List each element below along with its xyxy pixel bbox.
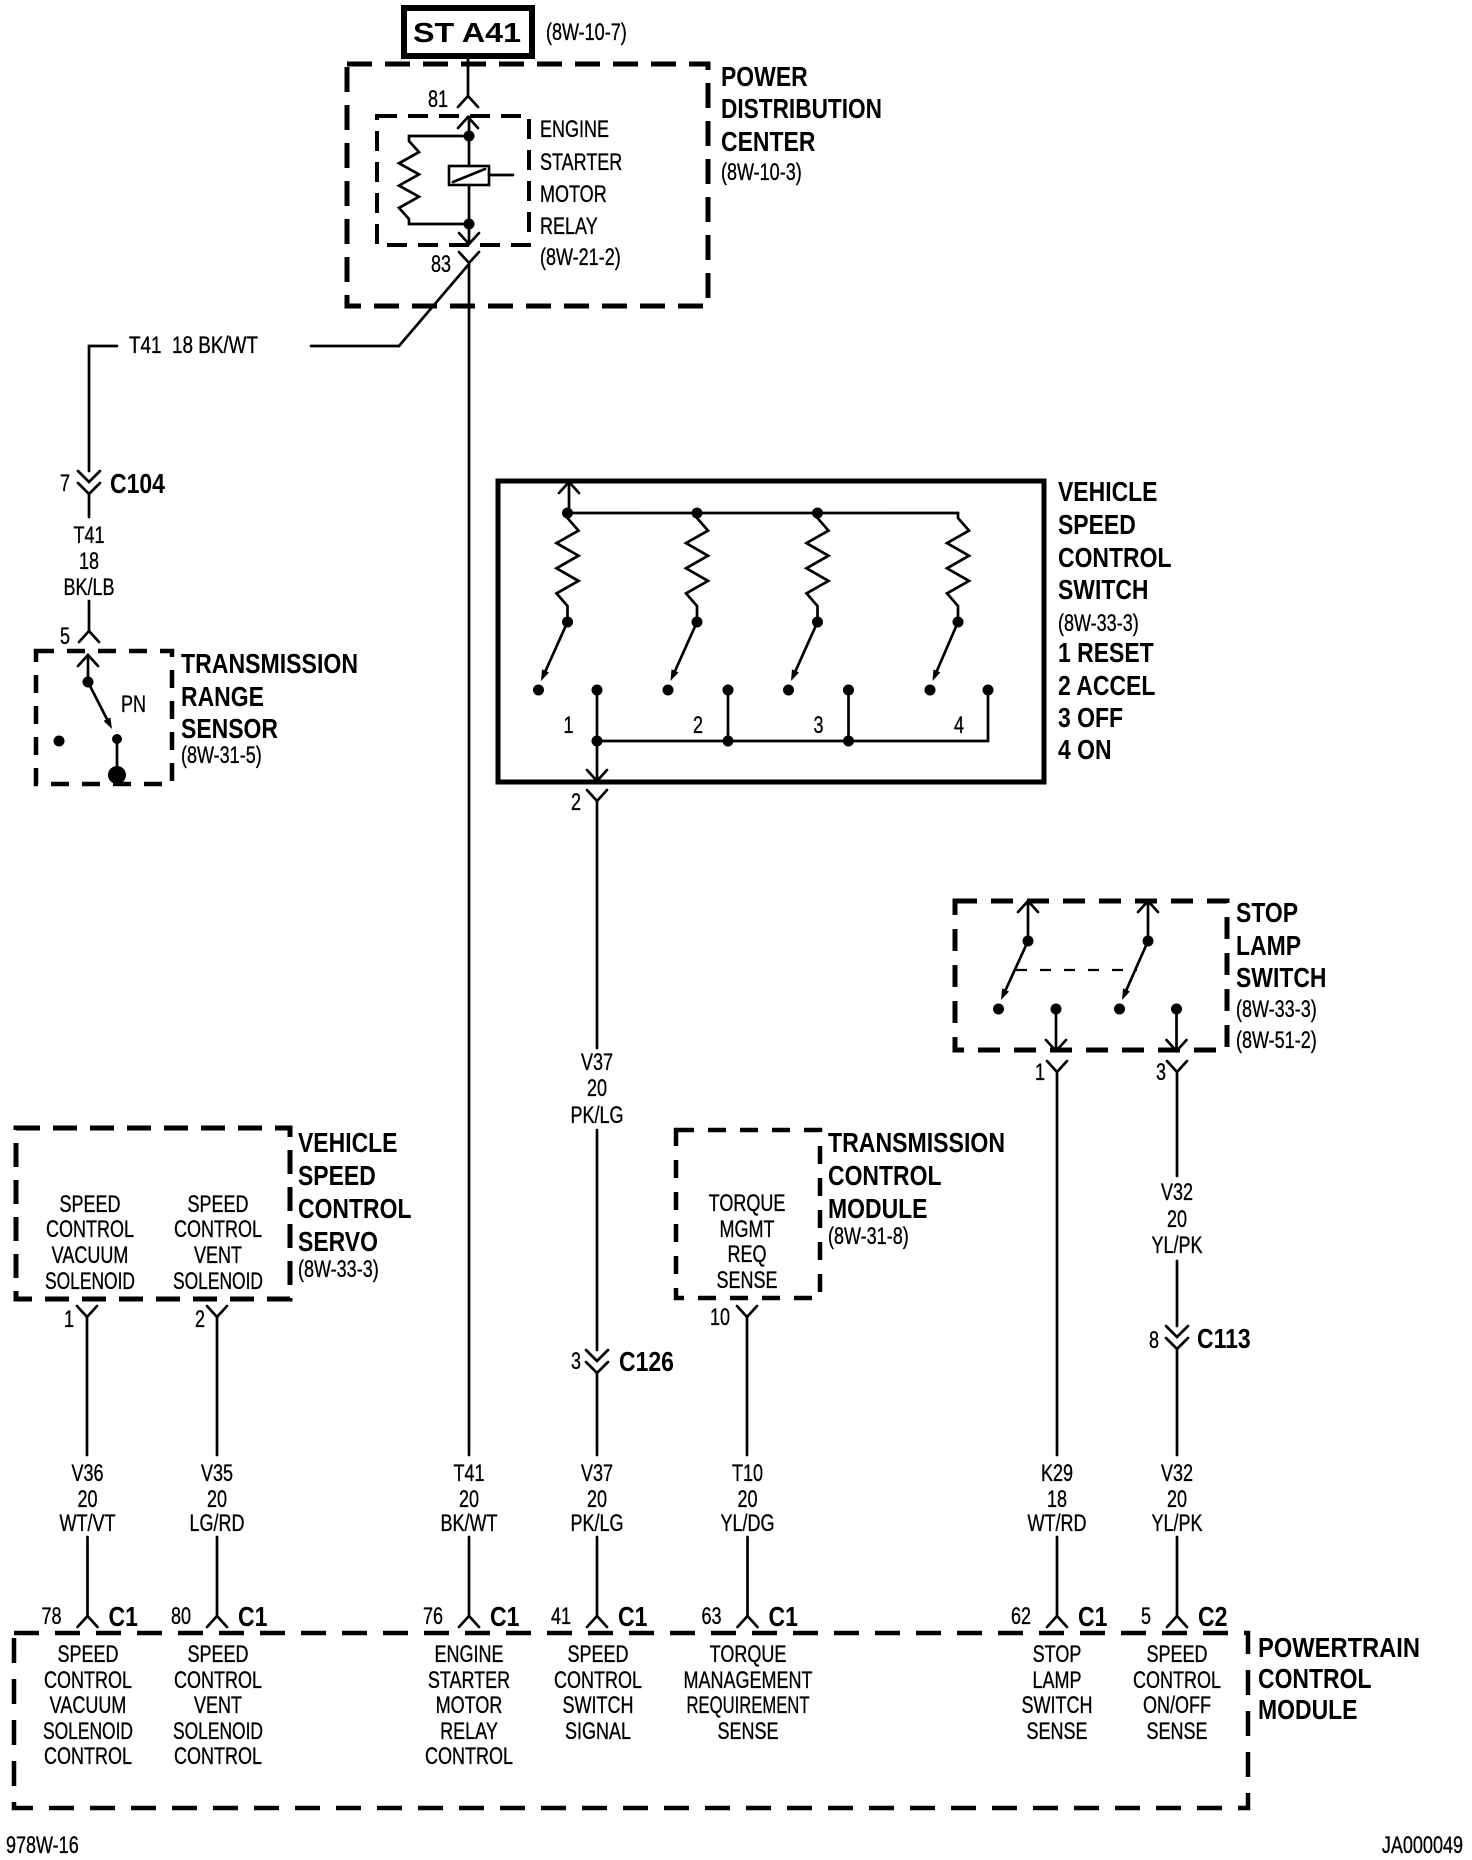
pin 1 of servo: [64, 1306, 97, 1333]
svg-text:V37: V37: [581, 1460, 613, 1487]
wire K29: [1056, 1072, 1059, 1455]
svg-text:SENSE: SENSE: [1027, 1718, 1088, 1745]
vehicle speed control servo box: [16, 1128, 290, 1299]
svg-text:41: 41: [551, 1603, 571, 1630]
svg-text:MODULE: MODULE: [828, 1193, 928, 1224]
svg-text:3: 3: [814, 712, 824, 739]
wire T10: [746, 1317, 749, 1455]
svg-text:20: 20: [587, 1486, 607, 1513]
wire contact 2 to bottom bus: [727, 690, 730, 741]
pin 83 of relay: [431, 233, 479, 278]
svg-text:CONTROL: CONTROL: [44, 1743, 132, 1770]
svg-text:YL/PK: YL/PK: [1152, 1232, 1203, 1259]
node output contact at 1176.5: [1171, 1004, 1182, 1051]
pin 3 of stop lamp switch: [1156, 1040, 1187, 1086]
mechanical link dashed: [1016, 969, 1137, 971]
svg-text:WT/VT: WT/VT: [60, 1510, 116, 1537]
wire ST A41 to pin 81: [467, 56, 470, 96]
svg-text:T41: T41: [74, 522, 105, 549]
node contact right 4: [983, 685, 994, 696]
svg-text:C104: C104: [110, 468, 165, 499]
junction bus top 1: [562, 508, 573, 519]
svg-text:SENSE: SENSE: [718, 1718, 779, 1745]
junction resistor 3 bottom: [812, 617, 823, 628]
pin 5 C2 of PCM: [1141, 1601, 1227, 1632]
svg-text:VEHICLE: VEHICLE: [298, 1127, 398, 1158]
label ENGINE STARTER MOTOR RELAY: [540, 116, 622, 271]
svg-text:C1: C1: [490, 1601, 519, 1632]
svg-text:SENSE: SENSE: [1147, 1718, 1208, 1745]
label PCM function SPEED CONTROL at 218: [173, 1641, 263, 1770]
label V32 20 YL/PK upper: [1152, 1179, 1203, 1259]
svg-text:PN: PN: [121, 691, 146, 718]
svg-text:STARTER: STARTER: [540, 149, 622, 176]
transmission control module box: [676, 1130, 820, 1298]
svg-text:20: 20: [459, 1486, 479, 1513]
label V37 20 PK/LG: [571, 1460, 624, 1537]
pin 10 of TCM: [710, 1304, 757, 1331]
svg-text:4 ON: 4 ON: [1058, 734, 1112, 765]
transmission range sensor box: [36, 651, 172, 784]
svg-text:(8W-51-2): (8W-51-2): [1236, 1027, 1317, 1054]
wire V36: [86, 1317, 89, 1455]
svg-text:POWERTRAIN: POWERTRAIN: [1258, 1632, 1420, 1663]
wire T41 branch left segment: [89, 346, 117, 471]
svg-text:5: 5: [60, 623, 70, 650]
switch arm at 1148: [1114, 941, 1148, 1015]
svg-text:(8W-21-2): (8W-21-2): [540, 244, 621, 271]
svg-text:TRANSMISSION: TRANSMISSION: [828, 1127, 1005, 1158]
svg-text:DISTRIBUTION: DISTRIBUTION: [721, 93, 882, 124]
svg-text:SIGNAL: SIGNAL: [565, 1718, 631, 1745]
label V35 20 LG/RD: [190, 1460, 245, 1537]
switch arm 3: [791, 622, 818, 681]
label V37 20 PK/LG upper: [571, 1049, 624, 1129]
wire K29 to PCM: [1056, 1537, 1059, 1616]
pin 62 C1 of PCM: [1011, 1601, 1107, 1632]
svg-text:T41 18 BK/WT: T41 18 BK/WT: [129, 332, 258, 359]
svg-text:ENGINE: ENGINE: [540, 116, 609, 143]
node contact left 2: [663, 685, 674, 696]
resistor R4: [947, 513, 969, 622]
svg-text:POWER: POWER: [721, 61, 808, 92]
resistor R2: [686, 513, 708, 622]
svg-text:(8W-33-3): (8W-33-3): [298, 1256, 379, 1283]
svg-text:C1: C1: [1078, 1601, 1107, 1632]
wire V37 lower: [596, 1373, 599, 1455]
junction node A: [464, 131, 475, 142]
svg-text:SENSE: SENSE: [717, 1267, 778, 1294]
wire V37 middle: [596, 1130, 599, 1350]
relay coil: [449, 136, 513, 224]
svg-text:CONTROL: CONTROL: [44, 1667, 132, 1694]
svg-text:V37: V37: [581, 1049, 613, 1076]
svg-text:SPEED: SPEED: [1058, 509, 1136, 540]
label T41 20 BK/WT: [441, 1460, 498, 1537]
svg-text:CONTROL: CONTROL: [174, 1216, 262, 1243]
svg-text:ENGINE: ENGINE: [435, 1641, 504, 1668]
svg-text:2: 2: [693, 712, 703, 739]
label STOP LAMP SWITCH: [1236, 897, 1327, 1054]
wire contact 3 to bottom bus: [847, 690, 850, 741]
svg-text:80: 80: [171, 1603, 191, 1630]
pin 80 C1 of PCM: [171, 1601, 267, 1632]
svg-text:TORQUE: TORQUE: [710, 1641, 787, 1668]
label VEHICLE SPEED CONTROL SWITCH: [1058, 476, 1172, 765]
wire bottom bus: [597, 740, 988, 743]
svg-text:SOLENOID: SOLENOID: [173, 1718, 263, 1745]
svg-text:C1: C1: [769, 1601, 798, 1632]
svg-text:CONTROL: CONTROL: [1133, 1667, 1221, 1694]
resistor relay suppression: [399, 136, 469, 224]
junction resistor 2 bottom: [692, 617, 703, 628]
svg-text:1: 1: [64, 1306, 74, 1333]
svg-text:LAMP: LAMP: [1236, 930, 1301, 961]
wire T41 to PCM: [468, 1537, 471, 1616]
junction bus bottom 2: [723, 736, 734, 747]
svg-text:SPEED: SPEED: [298, 1160, 376, 1191]
svg-text:V36: V36: [72, 1460, 104, 1487]
svg-text:CONTROL: CONTROL: [298, 1193, 412, 1224]
wire T41 20 BK/WT main vertical run: [468, 263, 471, 1455]
svg-text:18: 18: [79, 548, 99, 575]
svg-text:VENT: VENT: [194, 1692, 242, 1719]
svg-text:CONTROL: CONTROL: [554, 1667, 642, 1694]
wire V37 to PCM: [596, 1537, 599, 1616]
svg-text:ON/OFF: ON/OFF: [1143, 1692, 1211, 1719]
pin 1 of stop lamp switch: [1035, 1040, 1067, 1086]
wire contact 1 to bottom bus: [596, 690, 599, 741]
wire to transmission range sensor: [88, 601, 91, 631]
svg-text:STOP: STOP: [1236, 897, 1298, 928]
label PCM function SPEED SENSE at 1177: [1133, 1641, 1221, 1745]
svg-text:SERVO: SERVO: [298, 1226, 378, 1257]
svg-text:BK/LB: BK/LB: [64, 574, 115, 601]
wire node B to pin 83: [468, 224, 471, 244]
svg-text:MODULE: MODULE: [1258, 1694, 1358, 1725]
svg-text:(8W-33-3): (8W-33-3): [1058, 610, 1139, 637]
svg-text:8: 8: [1149, 1327, 1159, 1354]
label K29 18 WT/RD: [1028, 1460, 1087, 1537]
svg-text:C2: C2: [1198, 1601, 1227, 1632]
pin feed at 1028: [1018, 901, 1038, 947]
pin 76 C1 of PCM: [423, 1601, 519, 1632]
svg-text:CONTROL: CONTROL: [46, 1216, 134, 1243]
wire V35 to PCM: [216, 1537, 219, 1616]
svg-text:SOLENOID: SOLENOID: [43, 1718, 133, 1745]
label V32 20 YL/PK: [1152, 1460, 1203, 1537]
svg-text:2 ACCEL: 2 ACCEL: [1058, 670, 1155, 701]
svg-text:20: 20: [587, 1075, 607, 1102]
node unused contact: [54, 736, 65, 747]
svg-text:K29: K29: [1041, 1460, 1073, 1487]
svg-text:2: 2: [195, 1306, 205, 1333]
svg-text:CONTROL: CONTROL: [1258, 1663, 1372, 1694]
svg-text:3 OFF: 3 OFF: [1058, 702, 1123, 733]
svg-text:C126: C126: [619, 1346, 674, 1377]
node contact right 1: [592, 685, 603, 696]
svg-text:RANGE: RANGE: [181, 681, 264, 712]
pin 2 of switch: [571, 770, 607, 816]
svg-text:SPEED: SPEED: [568, 1641, 629, 1668]
svg-text:18: 18: [1047, 1486, 1067, 1513]
svg-text:YL/PK: YL/PK: [1152, 1510, 1203, 1537]
svg-text:63: 63: [702, 1603, 722, 1630]
svg-text:LAMP: LAMP: [1033, 1667, 1082, 1694]
svg-text:20: 20: [1167, 1486, 1187, 1513]
svg-text:7: 7: [60, 470, 70, 497]
pin 81 of relay: [428, 86, 478, 128]
wire V36 to PCM: [86, 1537, 89, 1616]
wire V35: [216, 1317, 219, 1455]
svg-text:V32: V32: [1161, 1179, 1193, 1206]
wire V32 lower: [1176, 1349, 1179, 1455]
wire V37 upper: [596, 801, 599, 1048]
svg-text:4: 4: [954, 712, 964, 739]
svg-text:20: 20: [1167, 1206, 1187, 1233]
svg-text:YL/DG: YL/DG: [721, 1510, 775, 1537]
wire T41 branch horizontal right segment: [311, 345, 399, 348]
svg-text:RELAY: RELAY: [540, 213, 598, 240]
svg-text:SPEED: SPEED: [1147, 1641, 1208, 1668]
switch arm at 1028: [993, 941, 1028, 1015]
pin 63 C1 of PCM: [702, 1601, 798, 1632]
connector C104: [60, 468, 165, 517]
svg-text:REQ: REQ: [728, 1241, 767, 1268]
wire to pin 2: [596, 741, 599, 780]
svg-text:978W-16: 978W-16: [6, 1832, 79, 1859]
svg-text:CENTER: CENTER: [721, 126, 815, 157]
svg-text:C1: C1: [238, 1601, 267, 1632]
node contact left 1: [533, 685, 544, 696]
svg-text:TORQUE: TORQUE: [709, 1190, 786, 1217]
node contact right 3: [843, 685, 854, 696]
svg-text:MOTOR: MOTOR: [540, 181, 607, 208]
svg-text:76: 76: [423, 1603, 443, 1630]
svg-text:STOP: STOP: [1033, 1641, 1082, 1668]
label PCM function SPEED SIGNAL at 598: [554, 1641, 642, 1745]
svg-text:MGMT: MGMT: [720, 1216, 775, 1243]
pin 41 C1 of PCM: [551, 1601, 647, 1632]
power distribution center box: [347, 64, 708, 306]
svg-text:(8W-31-5): (8W-31-5): [181, 742, 262, 769]
svg-text:78: 78: [42, 1603, 62, 1630]
connector C126: [571, 1346, 674, 1377]
label V36 20 WT/VT: [60, 1460, 116, 1537]
svg-text:PK/LG: PK/LG: [571, 1102, 624, 1129]
svg-text:CONTROL: CONTROL: [174, 1667, 262, 1694]
pin 5 of transmission range sensor: [60, 623, 99, 666]
svg-text:10: 10: [710, 1304, 730, 1331]
wire V32 middle: [1176, 1261, 1179, 1326]
label TRANSMISSION CONTROL MODULE: [828, 1127, 1005, 1250]
svg-text:SOLENOID: SOLENOID: [45, 1268, 135, 1295]
svg-text:SOLENOID: SOLENOID: [173, 1268, 263, 1295]
switch arm 1: [541, 622, 568, 681]
label T10 20 YL/DG: [721, 1460, 775, 1537]
label POWERTRAIN CONTROL MODULE: [1258, 1632, 1420, 1725]
svg-text:C1: C1: [618, 1601, 647, 1632]
svg-text:CONTROL: CONTROL: [1058, 542, 1172, 573]
node contact right 2: [723, 685, 734, 696]
junction bus top 2: [692, 508, 703, 519]
svg-text:83: 83: [431, 251, 451, 278]
svg-text:VEHICLE: VEHICLE: [1058, 476, 1158, 507]
pin 78 C1 of PCM: [42, 1601, 138, 1632]
switch arm 2: [671, 622, 698, 681]
svg-text:ST A41: ST A41: [413, 17, 521, 48]
svg-text:VACUUM: VACUUM: [52, 1242, 129, 1269]
svg-text:2: 2: [571, 789, 581, 816]
svg-text:1: 1: [564, 712, 574, 739]
svg-text:LG/RD: LG/RD: [190, 1510, 245, 1537]
node PN contact: [108, 734, 126, 784]
svg-text:SPEED: SPEED: [188, 1191, 249, 1218]
label PCM function ENGINE CONTROL at 469: [425, 1641, 513, 1770]
svg-text:VACUUM: VACUUM: [50, 1692, 127, 1719]
wire V32 upper: [1176, 1072, 1179, 1176]
svg-text:CONTROL: CONTROL: [174, 1743, 262, 1770]
label PCM function STOP SENSE at 1057: [1022, 1641, 1093, 1745]
svg-text:1 RESET: 1 RESET: [1058, 637, 1154, 668]
label PCM function SPEED CONTROL at 88: [43, 1641, 133, 1770]
svg-text:C113: C113: [1197, 1323, 1251, 1354]
svg-text:V32: V32: [1161, 1460, 1193, 1487]
junction bus bottom 1: [592, 736, 603, 747]
node contact left 4: [925, 685, 936, 696]
junction bus bottom 3: [843, 736, 854, 747]
svg-text:20: 20: [738, 1486, 758, 1513]
pin feed at 1148: [1138, 901, 1158, 947]
svg-text:V35: V35: [201, 1460, 233, 1487]
junction resistor 1 bottom: [562, 617, 573, 628]
pin 2 of servo: [195, 1306, 227, 1333]
svg-text:SWITCH: SWITCH: [1022, 1692, 1093, 1719]
label TORQUE MGMT REQ SENSE: [709, 1190, 786, 1294]
wire pin5 into sensor: [87, 655, 90, 682]
svg-text:SPEED: SPEED: [58, 1641, 119, 1668]
svg-text:REQUIREMENT: REQUIREMENT: [687, 1692, 810, 1719]
svg-text:BK/WT: BK/WT: [441, 1510, 498, 1537]
svg-text:CONTROL: CONTROL: [425, 1743, 513, 1770]
svg-text:5: 5: [1141, 1603, 1151, 1630]
svg-text:VENT: VENT: [194, 1242, 242, 1269]
svg-text:(8W-31-8): (8W-31-8): [828, 1223, 909, 1250]
label VEHICLE SPEED CONTROL SERVO: [298, 1127, 412, 1283]
svg-text:MANAGEMENT: MANAGEMENT: [684, 1667, 813, 1694]
svg-text:(8W-10-3): (8W-10-3): [721, 159, 802, 186]
label PCM function TORQUE SENSE at 748: [684, 1641, 813, 1745]
wire contact 4 to bottom bus: [987, 690, 990, 741]
svg-text:3: 3: [571, 1348, 581, 1375]
svg-text:SWITCH: SWITCH: [1236, 962, 1327, 993]
svg-text:3: 3: [1156, 1059, 1166, 1086]
svg-text:62: 62: [1011, 1603, 1031, 1630]
svg-text:STARTER: STARTER: [428, 1667, 510, 1694]
powertrain control module box: [14, 1633, 1248, 1808]
label TRANSMISSION RANGE SENSOR: [181, 648, 358, 769]
pin top of switch: [559, 482, 579, 513]
relay box (engine starter motor relay): [377, 116, 529, 245]
junction node B: [464, 219, 475, 230]
svg-text:SWITCH: SWITCH: [1058, 574, 1149, 605]
resistor R3: [807, 513, 829, 622]
svg-text:TRANSMISSION: TRANSMISSION: [181, 648, 358, 679]
node contact left 3: [783, 685, 794, 696]
svg-text:1: 1: [1035, 1059, 1045, 1086]
label T41 18 BK/LB: [64, 522, 115, 601]
connector C113: [1149, 1323, 1251, 1354]
stop lamp switch box: [955, 901, 1227, 1050]
svg-text:SWITCH: SWITCH: [563, 1692, 634, 1719]
svg-text:RELAY: RELAY: [440, 1718, 498, 1745]
label POWER DISTRIBUTION CENTER: [721, 61, 882, 186]
svg-text:PK/LG: PK/LG: [571, 1510, 624, 1537]
svg-text:CONTROL: CONTROL: [828, 1160, 942, 1191]
svg-text:C1: C1: [109, 1601, 138, 1632]
label SPEED CONTROL VENT SOLENOID: [173, 1191, 263, 1295]
svg-text:T10: T10: [732, 1460, 763, 1487]
svg-text:SPEED: SPEED: [188, 1641, 249, 1668]
resistor R1: [557, 513, 579, 622]
svg-text:20: 20: [207, 1486, 227, 1513]
svg-text:20: 20: [78, 1486, 98, 1513]
svg-text:81: 81: [428, 86, 448, 113]
wire pin81 to node A: [468, 117, 471, 136]
node ST A41 feed box: [404, 8, 532, 56]
junction bus top 3: [812, 508, 823, 519]
label SPEED CONTROL VACUUM SOLENOID: [45, 1191, 135, 1295]
svg-text:WT/RD: WT/RD: [1028, 1510, 1087, 1537]
vehicle speed control switch box: [498, 481, 1044, 782]
svg-text:SPEED: SPEED: [60, 1191, 121, 1218]
svg-text:T41: T41: [454, 1460, 485, 1487]
svg-text:JA000049: JA000049: [1382, 1832, 1463, 1859]
junction resistor 4 bottom: [953, 617, 964, 628]
svg-text:SENSOR: SENSOR: [181, 713, 278, 744]
svg-text:(8W-33-3): (8W-33-3): [1236, 996, 1317, 1023]
switch arm PN: [83, 677, 113, 730]
svg-text:MOTOR: MOTOR: [436, 1692, 503, 1719]
node output contact at 1056: [1051, 1004, 1062, 1051]
wire V32 to PCM: [1176, 1537, 1179, 1616]
wire top bus: [569, 512, 958, 515]
switch arm 4: [933, 622, 959, 681]
wire T41 branch diagonal: [399, 264, 469, 346]
wire T10 to PCM: [746, 1537, 749, 1616]
svg-text:(8W-10-7): (8W-10-7): [546, 19, 627, 46]
